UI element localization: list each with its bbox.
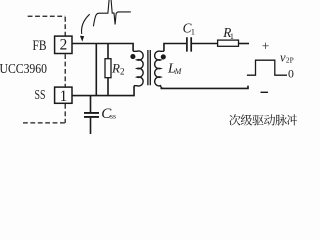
svg-text:2P: 2P [286,56,294,65]
svg-text:FB: FB [33,38,47,54]
svg-text:2: 2 [60,37,68,54]
svg-text:R: R [111,60,120,75]
svg-text:UCC3960: UCC3960 [0,62,47,77]
svg-text:1: 1 [230,31,234,41]
svg-text:1: 1 [60,88,68,105]
svg-text:1: 1 [191,26,195,36]
svg-text:0: 0 [288,66,294,80]
svg-text:SS: SS [35,88,46,103]
svg-text:2: 2 [120,67,125,77]
svg-text:ss: ss [110,112,116,121]
svg-text:+: + [262,39,270,54]
svg-text:M: M [174,67,183,76]
